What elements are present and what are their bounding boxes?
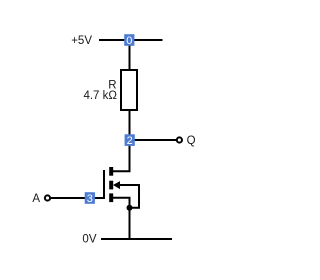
wire drain: node2 down, left to channel [113, 146, 130, 171]
svg-text:3: 3 [87, 193, 93, 205]
wire node 2 to terminal Q [130, 139, 177, 141]
node 0 badge [124, 34, 134, 47]
svg-text:2: 2 [127, 135, 133, 147]
node 3 badge [85, 192, 95, 205]
transistor Q1 body bar [109, 181, 113, 190]
wire body to source junction [119, 185, 139, 208]
resistor R 4.7k box [121, 70, 137, 110]
svg-text:0V: 0V [82, 234, 96, 246]
terminal Q open circle [177, 137, 182, 142]
transistor Q1 source bar [109, 193, 113, 202]
wire top +5V rail [99, 39, 163, 41]
svg-text:4.7 kΩ: 4.7 kΩ [83, 90, 117, 102]
wire gate from node 3 [51, 197, 104, 199]
junction dot source/body [127, 205, 133, 211]
transistor Q1 gate line [103, 170, 105, 199]
wire node0 to resistor top [129, 40, 131, 70]
transistor Q1 body arrow [113, 181, 120, 189]
svg-text:+5V: +5V [71, 35, 92, 47]
transistor Q1 drain bar [109, 167, 113, 176]
wire bottom 0V rail [101, 238, 172, 240]
node 2 badge [125, 134, 135, 147]
svg-text:Q: Q [187, 135, 196, 147]
terminal A open circle [45, 195, 50, 200]
wire resistor bottom to node 2 [129, 110, 131, 146]
wire source down to 0V rail [113, 198, 130, 239]
svg-text:0: 0 [126, 35, 132, 47]
svg-text:A: A [32, 193, 40, 205]
